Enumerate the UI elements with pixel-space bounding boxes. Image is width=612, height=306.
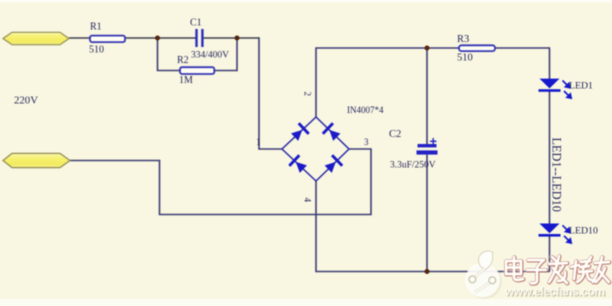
wire corner down to bridge pin1 bbox=[259, 37, 282, 149]
diode D4 bottom-right (anode pin4, cathode pin3) bbox=[323, 154, 343, 174]
resistor R2 bbox=[180, 67, 214, 74]
junction dot C2 top bbox=[425, 46, 430, 51]
bridge rectifier diamond bbox=[282, 117, 349, 181]
svg-text:1: 1 bbox=[256, 137, 261, 147]
capacitor C1 bbox=[195, 29, 203, 47]
node A junction dot bbox=[155, 36, 160, 41]
wire C1 right plate to corner bbox=[204, 37, 260, 39]
svg-text:C2: C2 bbox=[389, 129, 401, 140]
svg-text:334/400V: 334/400V bbox=[191, 51, 229, 61]
diode D3 bottom-left (anode pin4, cathode pin1) bbox=[288, 154, 308, 174]
LED10 emission arrows bbox=[563, 225, 572, 243]
svg-text:LED1: LED1 bbox=[569, 81, 593, 92]
watermark logo circle bbox=[465, 251, 502, 299]
svg-text:3: 3 bbox=[364, 137, 369, 147]
resistor R3 bbox=[459, 45, 495, 51]
svg-text:1M: 1M bbox=[179, 75, 193, 86]
svg-text:C1: C1 bbox=[190, 18, 202, 29]
wire LED10 down to bottom rail bbox=[549, 236, 551, 271]
LED1 bbox=[539, 79, 561, 92]
terminal P1 220V bbox=[3, 32, 69, 44]
svg-text:R1: R1 bbox=[90, 22, 102, 33]
wire terminal1 to R1 bbox=[69, 37, 90, 39]
wire C2 top connection bbox=[426, 48, 428, 144]
wire R2 branch left bbox=[158, 38, 181, 71]
wire R2 branch right bbox=[214, 38, 237, 71]
node B junction dot bbox=[235, 36, 240, 41]
svg-text:LED10: LED10 bbox=[569, 226, 598, 237]
wire rail corner down to LED1 bbox=[549, 48, 552, 79]
svg-text:2: 2 bbox=[303, 92, 313, 97]
wire bridge pin2 to top-right rail bbox=[316, 48, 550, 117]
terminal P2 220V bbox=[3, 153, 70, 167]
svg-text:R3: R3 bbox=[457, 34, 469, 45]
wire bottom rail pin4 to LED string bbox=[316, 181, 550, 272]
wire R1 to C1 left plate bbox=[125, 37, 196, 39]
plus sign C2 bbox=[430, 138, 437, 145]
svg-text:LED1--LED10: LED1--LED10 bbox=[550, 138, 564, 212]
wire C2 bottom connection bbox=[426, 155, 428, 272]
LED1 emission arrows bbox=[563, 81, 572, 99]
wire LED1 to LED10 bbox=[549, 92, 551, 224]
svg-text:220V: 220V bbox=[14, 95, 38, 107]
svg-text:IN4007*4: IN4007*4 bbox=[347, 105, 384, 115]
svg-text:3.3uF/250V: 3.3uF/250V bbox=[390, 161, 436, 171]
svg-text:R2: R2 bbox=[177, 55, 189, 66]
svg-text:www.elecfans.com: www.elecfans.com bbox=[504, 285, 605, 299]
svg-text:4: 4 bbox=[303, 198, 313, 203]
capacitor C2 polarized bbox=[417, 144, 438, 155]
junction dot C2 bottom bbox=[425, 269, 430, 274]
wire bridge pin3 to terminal2 bbox=[70, 149, 371, 215]
resistor R1 bbox=[90, 36, 125, 43]
diode D1 top-left (anode pin1, cathode pin2) bbox=[290, 122, 310, 142]
svg-text:510: 510 bbox=[89, 45, 104, 56]
diode D2 top-right (anode pin3, cathode pin2) bbox=[322, 122, 342, 142]
watermark text 电子发烧友 (hand-drawn strokes) bbox=[506, 256, 609, 283]
LED10 bbox=[539, 224, 561, 237]
svg-text:510: 510 bbox=[457, 53, 473, 64]
